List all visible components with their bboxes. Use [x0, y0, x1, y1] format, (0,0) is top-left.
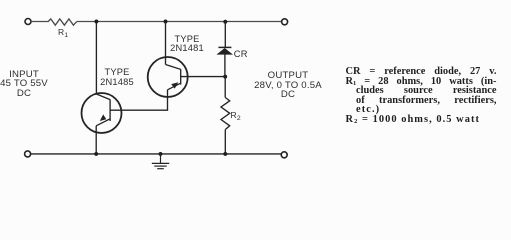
resistor R1 [48, 19, 77, 25]
caption line 6 [346, 115, 480, 125]
output terminal bottom-right [281, 152, 287, 158]
node bottom rail / Q1 emitter [94, 152, 98, 156]
label R1 [58, 28, 68, 41]
caption line 2 [346, 77, 497, 87]
label OUTPUT 28V, 0 TO 0.5A DC [248, 71, 328, 100]
node bottom rail / R2 [223, 152, 227, 156]
wire CR to node [224, 54, 226, 76]
wire Q2 base to CR/R2 node [181, 76, 226, 78]
resistor R2 [221, 98, 230, 130]
caption line 5 [356, 105, 380, 115]
transistor Q2 [148, 57, 188, 97]
node bottom rail / ground [159, 152, 163, 156]
label INPUT 45 TO 55V DC [0, 70, 56, 99]
node top rail / Q2 collector [164, 20, 168, 24]
reference diode CR [216, 47, 233, 54]
input terminal bottom-left [25, 151, 31, 157]
node top rail / CR branch [223, 20, 227, 24]
wire terminal to R1 [31, 21, 47, 23]
transistor Q1 [82, 93, 122, 133]
caption line 1 [346, 67, 497, 77]
wire Q1 collector [95, 22, 97, 95]
output terminal top-right [282, 19, 288, 25]
bottom rail wire [31, 153, 281, 155]
wire top rail [77, 21, 282, 23]
wire node to R2 [224, 77, 226, 98]
ground [152, 154, 169, 169]
node Q2 base / CR / R2 [223, 75, 227, 79]
label TYPE 2N1485 [87, 68, 147, 87]
node top rail / Q1 collector [94, 20, 98, 24]
input terminal top-left [25, 19, 31, 25]
label R2 [231, 111, 241, 124]
wire Q1 base to Q2 emitter [110, 90, 167, 110]
wire Q1 emitter to bottom rail [95, 126, 97, 154]
label CR [234, 50, 248, 60]
caption line 4 [356, 96, 497, 106]
wire Q2 collector [165, 22, 167, 65]
wire top rail to CR [224, 22, 226, 48]
caption line 3 [356, 86, 497, 96]
wire R2 to bottom rail [224, 130, 226, 155]
label TYPE 2N1481 [157, 35, 217, 54]
